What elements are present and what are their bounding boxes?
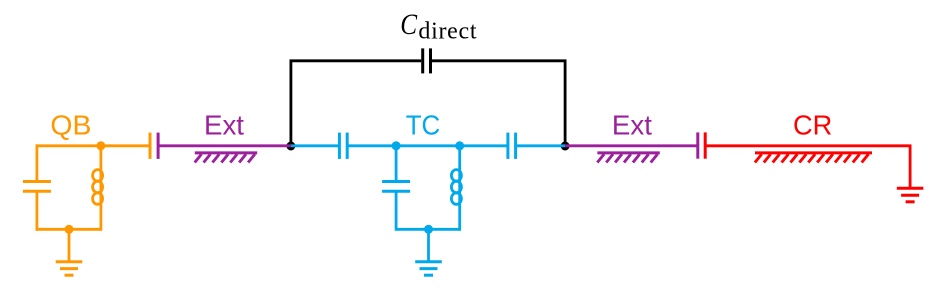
svg-text:direct: direct <box>418 19 477 45</box>
svg-text:Ext: Ext <box>204 109 244 140</box>
node junction dot right (black) <box>561 142 570 151</box>
ground CR <box>897 188 924 202</box>
node junction dot TC left <box>392 141 401 150</box>
wire Ext left <box>158 144 291 147</box>
wire black loop top-right segment and right vertical <box>432 61 565 146</box>
svg-text:TC: TC <box>406 109 441 140</box>
wire QB ground stem <box>68 229 71 261</box>
capacitor coupling QB-Ext (purple plate) <box>157 133 160 159</box>
wire CR main and down to ground <box>705 146 910 189</box>
hatched termination Ext right <box>597 153 660 163</box>
node junction dot left (black) <box>286 142 295 151</box>
svg-text:CR: CR <box>793 109 832 140</box>
capacitor QB shunt <box>23 182 51 192</box>
wire TC main right <box>516 144 566 147</box>
wire TC bottom <box>396 228 460 231</box>
wire TC left branch lower <box>395 191 398 230</box>
capacitor TC series right <box>508 133 516 159</box>
inductor QB <box>93 144 103 230</box>
capacitor coupling Ext-CR (purple plate) <box>696 132 699 158</box>
node junction dot TC right <box>455 141 464 150</box>
wire TC ground stem <box>427 229 430 261</box>
hatched termination CR <box>755 153 872 163</box>
wire QB left branch upper <box>36 144 39 181</box>
wire QB left branch lower <box>36 191 39 230</box>
wire black loop left vertical and top-left segment <box>291 61 421 146</box>
node junction dot TC bottom <box>424 225 433 234</box>
wire Ext right <box>565 144 698 147</box>
node junction dot QB top <box>96 141 105 150</box>
label C_direct <box>400 7 477 44</box>
inductor TC <box>451 144 461 230</box>
capacitor coupling QB-Ext (orange plate) <box>149 133 152 159</box>
capacitor C_direct <box>423 48 431 73</box>
svg-text:QB: QB <box>50 109 91 140</box>
wire QB top <box>36 144 151 147</box>
wire TC main middle <box>347 144 508 147</box>
wire TC main left <box>291 144 340 147</box>
ground QB <box>56 262 83 276</box>
ground TC <box>415 262 442 276</box>
hatched termination Ext left <box>195 153 258 163</box>
capacitor TC shunt <box>382 182 410 192</box>
node junction dot QB bottom <box>65 225 74 234</box>
svg-text:C: C <box>400 7 417 41</box>
wire TC left branch upper <box>395 146 398 181</box>
capacitor coupling Ext-CR (red plate) <box>704 132 707 158</box>
wire QB bottom <box>36 228 101 231</box>
svg-text:Ext: Ext <box>612 109 652 140</box>
capacitor TC series left <box>339 133 347 159</box>
